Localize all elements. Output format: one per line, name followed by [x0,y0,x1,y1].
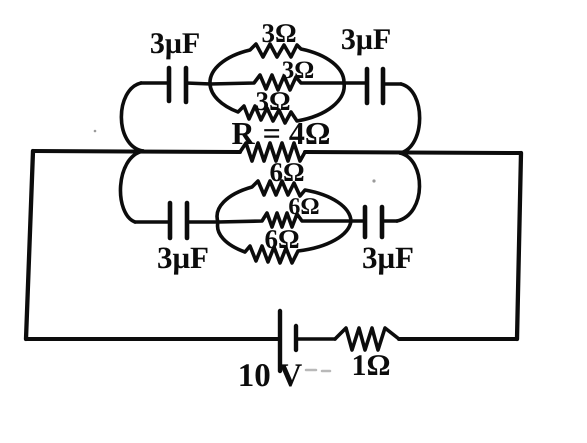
battery 10 V long plate [278,311,282,371]
wire: outer loop right vertical [517,153,521,339]
faint scan marks [306,370,330,371]
resistor 6ohm middle of bottom lens [218,213,351,227]
svg-text:3μF: 3μF [157,240,209,275]
svg-text:10 V: 10 V [238,358,303,394]
svg-text:3μF: 3μF [341,23,391,56]
wire: upper-left junction curve [121,83,143,151]
wire: top branch right lead [383,82,401,86]
wire: top-left cap to lens [186,83,211,84]
resistor 6ohm top arc of bottom lens [217,181,351,222]
wire: top branch left lead [141,81,169,85]
wire: lower-right junction curve [397,153,420,221]
svg-text:6Ω: 6Ω [269,157,304,187]
svg-text:3μF: 3μF [150,27,200,60]
svg-text:3Ω: 3Ω [261,18,296,48]
capacitor C2 3uF top-right plates [365,69,370,103]
svg-text:3Ω: 3Ω [282,57,315,84]
resistor 6ohm bottom arc of bottom lens [218,221,351,263]
wire: bottom-left cap to lens [187,220,218,224]
wire: outer loop bottom left segment [26,337,280,341]
resistor R2 1ohm zigzag [335,328,399,350]
wire: battery to resistor 1ohm [296,337,335,341]
capacitor C4 3uF bottom-right plates [363,207,368,237]
resistor 3ohm top arc of top lens [210,44,344,84]
svg-text:6Ω: 6Ω [264,224,299,254]
wire: outer loop left vertical [26,151,33,339]
svg-text:R = 4Ω: R = 4Ω [232,115,331,151]
wire: middle bus right segment [305,152,521,153]
svg-text:3μF: 3μF [362,240,414,275]
battery 10 V short plate [294,326,298,350]
capacitor C3 3uF bottom-left plates [168,203,173,238]
svg-text:3Ω: 3Ω [255,86,290,116]
resistor R 4ohm zigzag on middle bus [240,143,305,161]
resistor 3ohm middle of top lens [210,75,344,90]
capacitor C1 3uF top-left plates [167,68,172,101]
resistor 3ohm bottom arc of top lens [210,83,344,123]
wire: bottom lens to bottom-right cap [351,219,365,223]
wire: top lens to top-right cap [343,81,367,85]
wire: upper-right junction curve [400,84,420,153]
svg-text:1Ω: 1Ω [351,349,390,382]
wire: lower-left junction curve [120,151,143,222]
wire: bottom branch left lead [135,220,170,224]
wire: middle bus left segment [33,151,240,152]
wire: bottom branch right lead [382,219,397,223]
svg-text:6Ω: 6Ω [288,194,319,220]
wire: outer loop bottom right segment [399,337,517,341]
